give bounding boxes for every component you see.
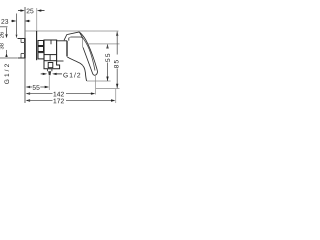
hose curve bbox=[67, 57, 86, 81]
outlet lower box bbox=[44, 61, 60, 69]
left extension line y58 bbox=[0, 57, 17, 59]
svg-text:85: 85 bbox=[113, 59, 120, 69]
svg-text:55: 55 bbox=[105, 52, 112, 62]
left edge tick y26.8 bbox=[0, 26, 7, 28]
dim 25 arrows bbox=[20, 9, 25, 11]
svg-text:26: 26 bbox=[0, 32, 5, 38]
vert dim 85 bbox=[116, 31, 118, 36]
outlet stub bbox=[47, 69, 52, 72]
left up arrow bbox=[5, 53, 7, 57]
lever bar bbox=[79, 32, 97, 75]
outlet inner square bbox=[48, 62, 53, 67]
ext line right y88.5 bbox=[96, 88, 120, 90]
svg-text:38: 38 bbox=[0, 43, 5, 49]
lever white fill bbox=[64, 32, 97, 75]
body main block bbox=[44, 40, 57, 61]
cells bottom line bbox=[44, 60, 57, 62]
ext line lever tip bbox=[95, 76, 97, 95]
spout right edge bbox=[66, 41, 68, 57]
outlet dim arrows bbox=[43, 73, 48, 75]
extension line x16.5 with down arrow bbox=[16, 13, 18, 34]
extension line escutcheon face upper bbox=[36, 8, 38, 31]
escutcheon face line bbox=[36, 31, 38, 60]
wall line bbox=[24, 7, 26, 103]
wall fitting segment bbox=[24, 38, 26, 58]
svg-text:G1/2: G1/2 bbox=[4, 62, 11, 85]
spout bottom line bbox=[57, 60, 64, 62]
nipple bbox=[48, 71, 51, 75]
ext line 172 right bbox=[115, 89, 117, 103]
left vertical dim line upper bbox=[6, 27, 8, 34]
spout section top bbox=[57, 40, 67, 42]
top extension line y31 bbox=[25, 30, 118, 32]
svg-text:25: 25 bbox=[26, 8, 34, 15]
lever back edge bbox=[79, 32, 83, 38]
svg-text:G1/2: G1/2 bbox=[63, 72, 82, 79]
svg-text:172: 172 bbox=[53, 98, 64, 105]
svg-text:55: 55 bbox=[32, 85, 40, 92]
svg-text:23: 23 bbox=[1, 19, 9, 26]
dome bbox=[69, 37, 83, 47]
union nut squares bbox=[38, 40, 44, 45]
vert dim 55 bbox=[106, 44, 108, 49]
ext line outlet center bbox=[48, 76, 50, 90]
ext line right y78 bbox=[87, 80, 111, 82]
cells divider bbox=[49, 55, 51, 61]
bottom dim 172 bbox=[26, 99, 31, 101]
body inner hline (outlet top) bbox=[44, 54, 57, 56]
lever heel bbox=[64, 32, 79, 40]
body inner divider upper bbox=[50, 40, 52, 44]
bottom dim 55 bbox=[26, 86, 31, 88]
lever inner edge bbox=[81, 36, 95, 71]
dim 23 arrows bbox=[12, 20, 17, 22]
rear pipes behind wall bbox=[18, 37, 26, 39]
ext line right y44 bbox=[88, 43, 119, 45]
bottom dim 142 bbox=[26, 92, 31, 94]
